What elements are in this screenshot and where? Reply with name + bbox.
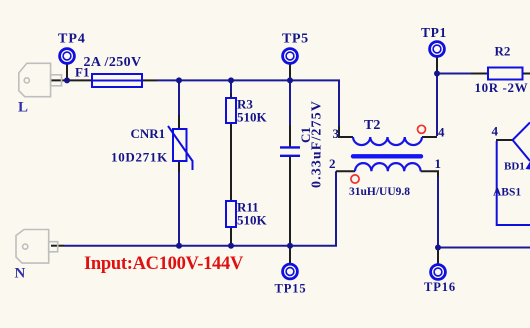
svg-text:510K: 510K [237, 110, 268, 125]
wire TP1 to R2 and down to T2 pin4 [437, 74, 471, 137]
node TP16 output [435, 245, 441, 251]
pin L connector [51, 79, 92, 81]
test point TP1 [430, 42, 445, 57]
svg-text:R2: R2 [495, 44, 511, 59]
svg-text:2A /250V: 2A /250V [84, 55, 142, 70]
wire R column top [230, 80, 232, 93]
svg-text:ABS1: ABS1 [493, 187, 521, 199]
pin CNR1 top [178, 115, 180, 129]
svg-text:10D271K: 10D271K [111, 150, 168, 165]
svg-text:1: 1 [435, 156, 442, 171]
wire C column top [289, 80, 291, 125]
resistor R3 [226, 98, 236, 123]
wire L top: fuse out to T2 pin3 corner [157, 80, 339, 126]
resistor R2 [488, 68, 523, 80]
svg-text:TP16: TP16 [424, 280, 456, 294]
test point TP4 [60, 49, 75, 64]
wire CNR1 column [178, 80, 180, 245]
pin CNR1 bottom [178, 161, 180, 172]
svg-text:L: L [18, 100, 28, 116]
pin TP4 stub [66, 64, 68, 81]
polarity dot top (red circle) [418, 125, 426, 133]
svg-text:TP15: TP15 [275, 282, 307, 296]
pin R3-R11 middle [230, 123, 232, 201]
pin T2 pin4 [422, 136, 437, 138]
resistor R11 [226, 201, 236, 227]
svg-text:TP4: TP4 [58, 32, 86, 47]
node L/TP4 [64, 77, 70, 83]
wire T2 pin1 to output [438, 177, 530, 248]
pin BD1 pin4 stub [496, 139, 513, 141]
test point TP15 [283, 264, 298, 279]
node CNR1 top [176, 77, 182, 83]
pin R2 left [471, 73, 488, 75]
pin TP16 stub [437, 248, 439, 266]
test point TP16 [431, 265, 446, 280]
node R11 bottom [228, 243, 234, 249]
svg-text:4: 4 [492, 124, 499, 139]
connector N [16, 230, 58, 264]
svg-text:T2: T2 [364, 118, 380, 133]
pin TP1 stub [436, 57, 438, 74]
pin T2 pin3 [339, 126, 353, 137]
node CNR1 bottom [176, 243, 182, 249]
polarity dot bottom (red circle) [351, 175, 359, 183]
svg-text:3: 3 [333, 126, 340, 141]
pin R11 bottom [230, 227, 232, 246]
svg-text:BD1: BD1 [504, 161, 525, 173]
pin TP5 stub [289, 64, 291, 81]
bridge BD1 (cut off at right edge) [497, 123, 530, 226]
pin T2 pin2 [336, 170, 355, 172]
node C1/TP15 bottom [287, 243, 293, 249]
transformer T2 core [353, 154, 421, 158]
node R3 top [228, 77, 234, 83]
svg-text:0.33uF/275V: 0.33uF/275V [310, 100, 325, 188]
node TP1 [434, 71, 440, 77]
transformer T2 winding top [353, 137, 422, 145]
pin T2 pin1 [421, 171, 438, 177]
pin R3 top [230, 93, 232, 98]
diode triangle inside BD1 [526, 162, 530, 170]
svg-text:510K: 510K [237, 213, 268, 228]
capacitor C1 [280, 147, 300, 155]
svg-text:4: 4 [438, 125, 445, 140]
pin N connector [51, 245, 64, 247]
varistor CNR1 [168, 126, 193, 170]
test point TP5 [283, 49, 298, 64]
svg-text:Input:AC100V-144V: Input:AC100V-144V [84, 254, 244, 274]
svg-text:TP1: TP1 [421, 25, 447, 40]
pin C1 bottom [289, 157, 291, 246]
fuse F1 [92, 74, 142, 87]
svg-text:N: N [15, 266, 26, 282]
pin C1 top [289, 125, 291, 146]
svg-text:2: 2 [329, 156, 336, 171]
pin R2 right [523, 73, 530, 75]
pin fuse right [142, 79, 157, 81]
svg-text:TP5: TP5 [282, 32, 309, 47]
connector L [19, 63, 62, 96]
svg-text:31uH/UU9.8: 31uH/UU9.8 [349, 186, 410, 198]
svg-text:CNR1: CNR1 [131, 126, 166, 141]
pin TP15 stub [289, 246, 291, 265]
node C1/TP5 top [287, 77, 293, 83]
wire N bottom [64, 171, 336, 245]
transformer T2 winding bottom [355, 163, 421, 171]
svg-text:10R -2W: 10R -2W [475, 80, 529, 95]
